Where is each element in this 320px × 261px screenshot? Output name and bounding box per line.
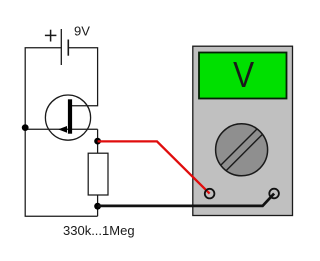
- wire: resistor bottom lead: [97, 195, 99, 216]
- wire: battery right to collector: [69, 48, 98, 106]
- svg-text:V: V: [233, 54, 254, 95]
- multimeter display screen: [199, 53, 287, 99]
- dial knob: [216, 124, 268, 176]
- black test lead wire: [98, 194, 275, 206]
- svg-text:330k...1Meg: 330k...1Meg: [63, 223, 135, 238]
- wire: emitter down to resistor node: [97, 129, 99, 153]
- transistor emitter arrow: [58, 126, 67, 133]
- junction node on left wire: [22, 124, 29, 131]
- svg-text:9V: 9V: [74, 24, 90, 39]
- multimeter body: [193, 46, 293, 215]
- node: resistor-ground junction: [94, 203, 101, 210]
- resistor R1: [88, 153, 108, 195]
- red test lead wire: [98, 141, 210, 193]
- transistor Q1 circle: [45, 95, 90, 140]
- node: emitter-resistor junction: [94, 138, 101, 145]
- terminal V+: [205, 189, 215, 199]
- battery plus sign: [45, 30, 57, 42]
- dial knob slots: [221, 129, 263, 171]
- transistor base bar: [68, 99, 72, 133]
- wire: battery top loop: [25, 48, 97, 217]
- wire: base lead: [25, 128, 97, 130]
- terminal COM: [269, 189, 279, 199]
- battery B1 plates: [61, 29, 68, 65]
